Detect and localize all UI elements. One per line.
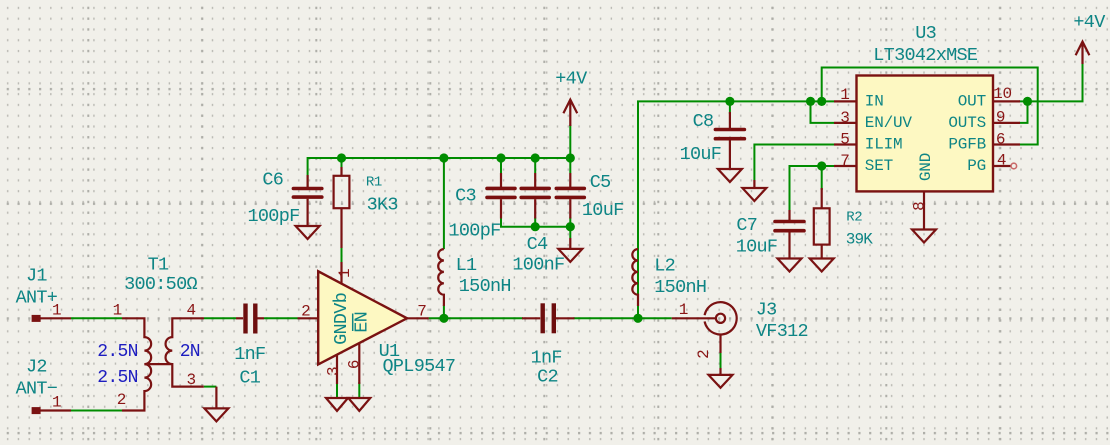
svg-text:J1: J1 xyxy=(26,266,47,287)
capacitor C3 xyxy=(487,188,515,218)
svg-text:J3: J3 xyxy=(756,299,777,320)
svg-text:6: 6 xyxy=(345,360,363,369)
ground C3 C4 C5 xyxy=(558,238,582,262)
ground C6 xyxy=(296,226,320,239)
wire U1 out to C2 xyxy=(429,317,523,319)
svg-text:L2: L2 xyxy=(654,255,675,276)
svg-text:6: 6 xyxy=(996,131,1005,149)
capacitor C1 xyxy=(236,304,264,334)
junction L1 output line xyxy=(439,314,448,323)
connector J1 xyxy=(32,315,71,322)
junction C5 +4V rail xyxy=(566,153,575,162)
svg-text:1: 1 xyxy=(52,302,61,320)
junction C8 xyxy=(725,97,734,106)
connector J2 xyxy=(32,407,71,414)
wire T1 pin4 to C1 xyxy=(204,317,236,319)
svg-text:1: 1 xyxy=(336,269,354,278)
svg-text:1nF: 1nF xyxy=(531,347,562,368)
ground T1 pin3 xyxy=(204,387,228,422)
wire C5 top stub xyxy=(569,158,571,173)
svg-text:1: 1 xyxy=(113,302,122,320)
svg-text:150nH: 150nH xyxy=(459,276,511,297)
wire J3 pin2 ground stub xyxy=(720,352,722,369)
junction L1 rail xyxy=(439,153,448,162)
svg-text:C3: C3 xyxy=(455,185,476,206)
svg-text:1: 1 xyxy=(52,394,61,412)
wire C3 C4 C5 bottom link xyxy=(501,218,570,239)
resistor R2 xyxy=(814,188,830,259)
svg-text:PG: PG xyxy=(967,157,986,175)
wire OUTS to OUT xyxy=(1019,101,1028,123)
svg-text:2N: 2N xyxy=(180,342,200,362)
svg-text:+4V: +4V xyxy=(555,69,587,90)
svg-text:R1: R1 xyxy=(366,175,382,191)
junction C3 rail xyxy=(496,153,505,162)
svg-text:2: 2 xyxy=(695,349,713,358)
op-amp U1 QPL9547 xyxy=(298,262,429,384)
wire C4 top stub xyxy=(534,158,536,173)
power +4V mid xyxy=(563,100,577,126)
svg-text:3: 3 xyxy=(186,371,195,389)
wire OUT to +4V xyxy=(1019,62,1083,101)
wire EN/UV to IN xyxy=(811,101,835,123)
svg-text:SET: SET xyxy=(865,157,893,175)
svg-text:10: 10 xyxy=(993,85,1012,103)
resistor R1 xyxy=(334,167,350,248)
wire L2 to IN rail xyxy=(638,101,834,318)
wire U1 pin6 ground stub xyxy=(358,382,360,398)
wire R2 top stub xyxy=(821,166,823,190)
svg-text:9: 9 xyxy=(996,109,1005,127)
wire C3 top stub xyxy=(500,158,502,173)
wire PGFB loop over U3 xyxy=(822,68,1038,145)
wire T1 pin3 to ground xyxy=(204,386,217,388)
junction EN/UV xyxy=(806,97,815,106)
wire J1 to T1 xyxy=(71,317,122,319)
wire C5 bottom stub xyxy=(569,218,571,227)
wire J2 to T1 xyxy=(71,410,122,412)
svg-text:C6: C6 xyxy=(262,170,283,191)
junction C5 bottom xyxy=(566,222,575,231)
svg-text:2: 2 xyxy=(117,391,126,409)
svg-text:GND: GND xyxy=(917,153,935,181)
svg-text:C7: C7 xyxy=(736,215,757,236)
svg-text:EN: EN xyxy=(352,312,373,333)
svg-text:4: 4 xyxy=(997,152,1006,170)
ground U3 pin8 xyxy=(912,230,936,243)
svg-text:C4: C4 xyxy=(527,234,548,255)
svg-text:1nF: 1nF xyxy=(234,344,265,365)
svg-text:3K3: 3K3 xyxy=(367,194,398,215)
junction R2 SET xyxy=(817,161,826,170)
capacitor C6 xyxy=(293,175,321,226)
svg-text:GNDVb: GNDVb xyxy=(331,293,352,345)
svg-text:ILIM: ILIM xyxy=(865,136,903,154)
svg-text:2.5N: 2.5N xyxy=(97,342,137,362)
wire R1 top stub xyxy=(341,158,343,169)
svg-text:10uF: 10uF xyxy=(680,144,722,165)
svg-text:T1: T1 xyxy=(148,255,169,276)
capacitor C8 xyxy=(715,112,744,169)
ground C8 xyxy=(718,169,742,182)
connector J3 VF312 xyxy=(672,302,737,375)
svg-text:100pF: 100pF xyxy=(247,206,299,227)
capacitor C4 xyxy=(521,188,549,218)
junction R1 rail xyxy=(337,153,346,162)
wire +4V mid drop xyxy=(569,125,571,158)
wire SET to C7 xyxy=(790,166,835,212)
svg-text:8: 8 xyxy=(911,201,929,210)
svg-text:1: 1 xyxy=(840,86,849,104)
svg-text:7: 7 xyxy=(840,152,849,170)
svg-text:C5: C5 xyxy=(590,172,611,193)
svg-text:PGFB: PGFB xyxy=(948,136,986,154)
svg-text:3: 3 xyxy=(840,109,849,127)
junction L2 output line xyxy=(633,314,642,323)
wire C4 bottom stub xyxy=(534,218,536,227)
svg-text:C8: C8 xyxy=(693,111,714,132)
svg-text:OUT: OUT xyxy=(958,93,986,111)
svg-text:1: 1 xyxy=(679,301,688,319)
svg-text:4: 4 xyxy=(186,302,195,320)
IC U3 LT3042xMSE xyxy=(834,76,1020,230)
ground U1 pin3 xyxy=(326,398,348,411)
svg-text:R2: R2 xyxy=(846,209,862,225)
wire L1 top xyxy=(443,158,445,249)
transformer T1 xyxy=(122,318,204,410)
wire C1 to U1 pin2 xyxy=(264,317,298,319)
capacitor C2 xyxy=(522,303,575,333)
ground U1 pin6 xyxy=(348,398,370,411)
capacitor C5 xyxy=(556,188,584,218)
svg-text:OUTS: OUTS xyxy=(948,114,986,132)
wire ILIM to ground xyxy=(754,145,834,181)
svg-text:2.5N: 2.5N xyxy=(97,368,137,388)
svg-text:QPL9547: QPL9547 xyxy=(382,356,455,377)
svg-text:EN/UV: EN/UV xyxy=(865,114,913,132)
svg-text:VF312: VF312 xyxy=(756,321,808,342)
junction C4 rail xyxy=(531,153,540,162)
inductor L1 xyxy=(438,249,444,306)
svg-text:5: 5 xyxy=(840,131,849,149)
svg-text:3: 3 xyxy=(325,367,343,376)
capacitor C7 xyxy=(775,210,804,259)
svg-text:39K: 39K xyxy=(846,231,874,249)
ground R2 xyxy=(810,259,834,272)
svg-text:2: 2 xyxy=(301,302,310,320)
svg-text:150nH: 150nH xyxy=(654,277,706,298)
wire L1 bottom xyxy=(443,305,445,318)
svg-text:100nF: 100nF xyxy=(512,254,564,275)
inductor L2 xyxy=(632,249,638,306)
svg-text:LT3042xMSE: LT3042xMSE xyxy=(873,45,978,66)
ground J3 pin2 xyxy=(709,375,733,388)
junction OUT xyxy=(1023,97,1032,106)
svg-text:L1: L1 xyxy=(456,255,477,276)
wire R1 bottom to U1 pin1 xyxy=(341,247,343,266)
svg-text:IN: IN xyxy=(865,93,884,111)
wire C8 top stub xyxy=(729,101,731,114)
ground ILIM xyxy=(742,180,766,201)
svg-text:J2: J2 xyxy=(26,356,47,377)
svg-text:300:50Ω: 300:50Ω xyxy=(124,274,197,295)
ground C7 xyxy=(778,259,802,272)
svg-text:10uF: 10uF xyxy=(736,237,778,258)
junction PGFB loop xyxy=(817,97,826,106)
svg-text:C1: C1 xyxy=(239,367,260,388)
wire top supply rail xyxy=(308,158,571,187)
power +4V top right xyxy=(1076,42,1090,64)
svg-text:+4V: +4V xyxy=(1073,12,1105,33)
svg-text:7: 7 xyxy=(417,302,426,320)
svg-text:100pF: 100pF xyxy=(448,220,500,241)
junction C4 bottom xyxy=(531,222,540,231)
svg-text:10uF: 10uF xyxy=(582,200,624,221)
svg-text:C2: C2 xyxy=(537,367,558,388)
wire U1 pin3 ground stub xyxy=(336,382,338,398)
svg-text:U3: U3 xyxy=(915,23,936,44)
wire C2 to J3 xyxy=(574,317,672,319)
